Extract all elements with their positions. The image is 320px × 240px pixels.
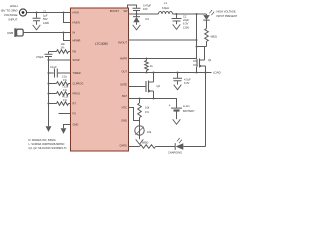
svg-text:GND: GND [121, 119, 127, 123]
svg-text:50V: 50V [43, 17, 48, 21]
svg-text:NTC: NTC [122, 106, 127, 110]
svg-text:40.2k: 40.2k [62, 95, 69, 99]
svg-text:1µF: 1µF [43, 13, 48, 17]
svg-text:D: DIODES INC. B360A: D: DIODES INC. B360A [29, 138, 56, 142]
svg-text:CLPROG: CLPROG [73, 82, 84, 86]
svg-text:1206: 1206 [183, 25, 189, 29]
svg-text:C2: C2 [183, 15, 187, 19]
svg-text:LTC4090: LTC4090 [95, 42, 108, 46]
svg-text:6.3V: 6.3V [183, 22, 189, 26]
svg-text:HIGH VOLTAGE: HIGH VOLTAGE [217, 10, 236, 14]
svg-text:680Ω: 680Ω [142, 141, 148, 145]
svg-text:HPWR: HPWR [73, 39, 81, 43]
svg-text:BAT: BAT [122, 94, 127, 98]
svg-text:10k: 10k [145, 105, 150, 109]
svg-text:Li-Ion: Li-Ion [183, 104, 190, 108]
svg-text:HVEN: HVEN [73, 21, 80, 25]
svg-text:0.47µF: 0.47µF [143, 4, 152, 8]
svg-text:GATE: GATE [120, 83, 127, 87]
svg-text:IN: IN [73, 31, 76, 35]
svg-text:10k: 10k [147, 130, 152, 134]
svg-text:USB: USB [7, 31, 13, 35]
svg-text:Q2: Q2 [157, 84, 161, 88]
svg-text:RT: RT [73, 102, 77, 106]
svg-text:71.5k: 71.5k [62, 85, 69, 89]
svg-text:BOOST: BOOST [110, 9, 119, 13]
svg-text:Q1: Q1 [208, 58, 212, 62]
svg-text:6.8µH: 6.8µH [162, 6, 169, 10]
svg-text:1206: 1206 [43, 21, 49, 25]
svg-text:14k: 14k [61, 42, 66, 46]
svg-text:SW: SW [123, 9, 128, 13]
svg-text:16V: 16V [143, 7, 148, 11]
svg-text:2.1k: 2.1k [62, 75, 68, 79]
svg-text:HVIN: HVIN [73, 11, 79, 15]
svg-text:CHRG: CHRG [119, 144, 127, 148]
svg-text:LOAD: LOAD [213, 70, 221, 74]
svg-text:INPUT: INPUT [9, 18, 18, 22]
svg-text:CHARGING: CHARGING [168, 151, 182, 154]
svg-text:PROG: PROG [73, 92, 81, 96]
svg-text:GND: GND [73, 123, 79, 127]
svg-text:0.1µF: 0.1µF [50, 65, 57, 69]
svg-text:4.7µF: 4.7µF [184, 77, 191, 81]
svg-text:FB: FB [73, 50, 77, 54]
svg-text:L: SUMIDA CDRH6D28-6R8NC: L: SUMIDA CDRH6D28-6R8NC [29, 142, 65, 146]
svg-text:VOLTAGE: VOLTAGE [4, 13, 18, 17]
svg-text:HVPR: HVPR [120, 57, 127, 61]
svg-text:270pF: 270pF [36, 55, 44, 59]
svg-text:FS: FS [73, 112, 77, 116]
svg-text:6.3V: 6.3V [184, 81, 190, 85]
svg-text:TIMER: TIMER [73, 71, 81, 75]
svg-text:HVOUT: HVOUT [118, 41, 127, 45]
svg-text:Q1, Q2: SILICONIX Si2333DS-T1: Q1, Q2: SILICONIX Si2333DS-T1 [29, 146, 68, 150]
svg-text:INPUT PRESENT: INPUT PRESENT [217, 14, 238, 18]
svg-text:BATTERY: BATTERY [183, 109, 195, 113]
svg-text:+: + [169, 104, 171, 108]
svg-text:D1: D1 [146, 17, 150, 21]
svg-text:(6V TO 38V): (6V TO 38V) [1, 8, 18, 12]
svg-text:SUSP: SUSP [73, 58, 80, 62]
svg-text:680Ω: 680Ω [211, 34, 217, 38]
svg-text:OUT: OUT [122, 69, 128, 73]
svg-text:C1: C1 [43, 10, 47, 14]
svg-text:22µF: 22µF [183, 18, 189, 22]
svg-text:HIGH: HIGH [10, 4, 18, 8]
